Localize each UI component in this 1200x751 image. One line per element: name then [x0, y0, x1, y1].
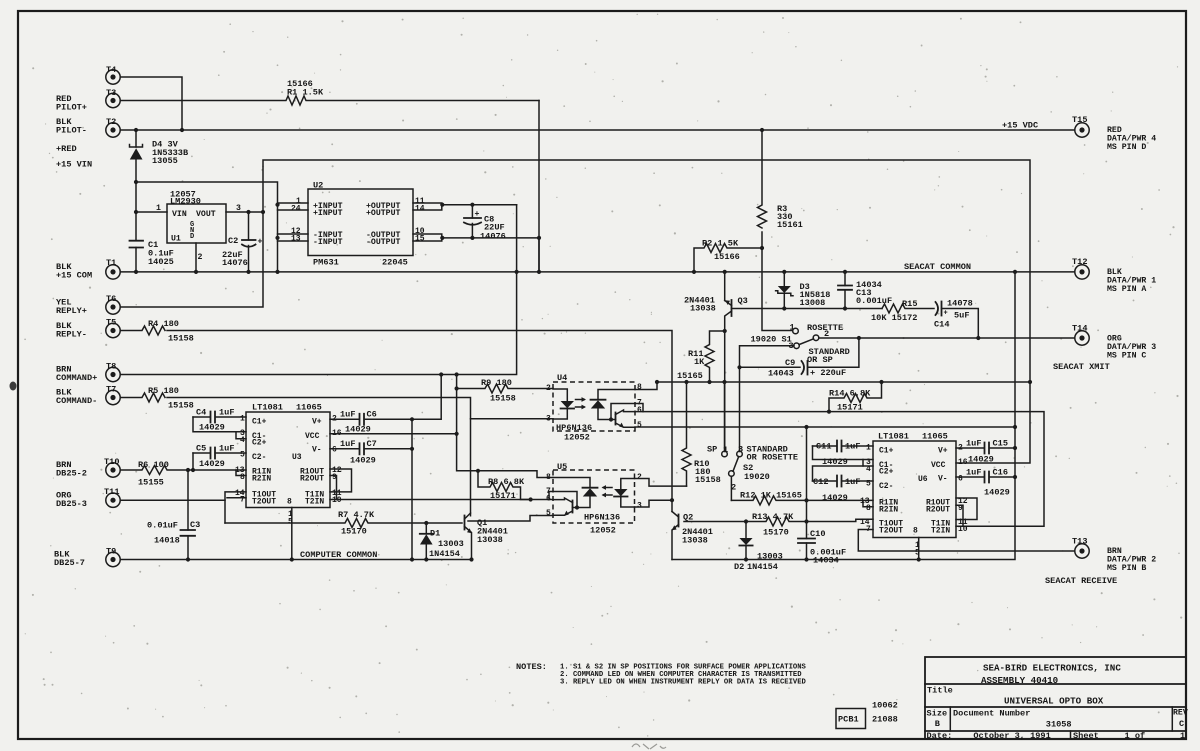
- wire U3 pin4 bracket: [236, 432, 246, 439]
- svg-text:1uF: 1uF: [219, 444, 234, 454]
- node label BRN DB25-2: [56, 460, 87, 479]
- wire U1 pin2 gnd: [195, 243, 197, 272]
- switch S2 19020: [707, 445, 798, 501]
- svg-text:5: 5: [288, 518, 293, 527]
- svg-text:PM631: PM631: [313, 258, 339, 268]
- svg-text:C10: C10: [810, 529, 825, 539]
- svg-text:3: 3: [546, 415, 551, 424]
- svg-text:R6 100: R6 100: [138, 460, 169, 470]
- wire T11 DB25-3: [121, 499, 226, 501]
- svg-text:D: D: [190, 233, 194, 241]
- svg-text:D1: D1: [430, 529, 440, 539]
- svg-text:T14: T14: [1072, 324, 1087, 334]
- svg-text:DATA/PWR 2: DATA/PWR 2: [1107, 555, 1156, 565]
- terminal T8: [106, 362, 120, 382]
- svg-text:C5: C5: [196, 444, 206, 454]
- node label BRN DATA/PWR 2 MS PIN B: [1107, 547, 1156, 573]
- wire U4 pin3 feed: [471, 418, 554, 420]
- wire T4 to T2 net: [121, 77, 183, 130]
- svg-text:8: 8: [637, 383, 642, 392]
- svg-text:13038: 13038: [477, 535, 503, 545]
- terminal T14: [1072, 324, 1089, 346]
- svg-text:D2: D2: [734, 562, 744, 572]
- svg-text:U1: U1: [171, 235, 181, 244]
- notes text: [516, 662, 807, 687]
- wire U4 emitter line to seacat common: [635, 426, 1015, 428]
- wire U1 pin1: [136, 211, 167, 213]
- wire +15 COM / SEACAT COMMON line T1 to T12: [121, 271, 1075, 273]
- svg-text:19020 S1: 19020 S1: [751, 335, 792, 345]
- wire COMPUTER COMMON: [121, 559, 472, 561]
- svg-text:8: 8: [240, 473, 245, 482]
- svg-text:14029: 14029: [199, 423, 225, 433]
- svg-text:+: +: [944, 310, 948, 318]
- svg-text:T2IN: T2IN: [305, 498, 324, 507]
- wire U4 pin8 to reply rail: [635, 382, 657, 390]
- terminal T5: [106, 318, 120, 338]
- svg-text:ASSEMBLY 40410: ASSEMBLY 40410: [981, 675, 1058, 686]
- svg-text:C6: C6: [367, 410, 377, 420]
- svg-text:C4: C4: [196, 408, 206, 418]
- terminal T15: [1072, 115, 1089, 137]
- wire U3 gnd pins 1 5: [288, 508, 293, 560]
- wire S1 contact 2 to T14 xmit line: [819, 337, 1075, 339]
- svg-text:R2IN: R2IN: [879, 506, 898, 515]
- svg-text:22045: 22045: [382, 258, 408, 268]
- U6 pin number labels: [860, 444, 968, 535]
- wire R1 right leg down to +15 COM: [538, 101, 540, 272]
- svg-text:+INPUT: +INPUT: [313, 209, 343, 218]
- svg-text:V-: V-: [938, 475, 948, 484]
- svg-text:24: 24: [291, 205, 301, 214]
- terminal T7: [106, 385, 120, 405]
- wire U2 +output to common: [413, 203, 517, 210]
- svg-text:HP6N136: HP6N136: [584, 513, 620, 523]
- svg-text:5: 5: [546, 509, 551, 518]
- svg-text:8: 8: [866, 504, 871, 513]
- wire U1 pin3 VOUT: [226, 211, 263, 213]
- svg-text:R2OUT: R2OUT: [300, 475, 324, 484]
- svg-text:1K: 1K: [694, 357, 705, 367]
- svg-text:T11: T11: [104, 487, 119, 497]
- resistor R2 1.5K: [694, 239, 762, 272]
- svg-text:15: 15: [415, 235, 425, 244]
- svg-text:8: 8: [287, 498, 292, 507]
- svg-text:REPLY-: REPLY-: [56, 330, 87, 340]
- U4 coupling arrows: [576, 397, 587, 409]
- stray mark left border: [10, 382, 17, 391]
- wire reply rail (U4 pin8 / R10 / R11 / Q3 / T6): [657, 381, 1030, 383]
- svg-text:V-: V-: [312, 446, 322, 455]
- title block text: [927, 663, 1188, 742]
- svg-text:C2+: C2+: [879, 468, 894, 477]
- svg-text:1uF: 1uF: [966, 439, 981, 449]
- capacitor C14 5uF: [934, 299, 978, 339]
- capacitor C5 1uF: [193, 444, 246, 471]
- svg-text:13038: 13038: [690, 304, 716, 314]
- svg-text:14078: 14078: [947, 299, 973, 309]
- wire U6 VCC line label: [968, 455, 994, 465]
- svg-text:Sheet: Sheet: [1073, 731, 1099, 741]
- transistor Q1 2N4401: [465, 513, 508, 560]
- svg-text:R8 6.8K: R8 6.8K: [488, 477, 525, 487]
- wire U6 pin8 bracket: [863, 500, 873, 506]
- svg-text:14029: 14029: [199, 459, 225, 469]
- svg-text:R14 6.8K: R14 6.8K: [829, 389, 871, 399]
- svg-text:11065: 11065: [922, 432, 948, 442]
- U4 pin number labels: [546, 383, 642, 430]
- capacitor C9 220uF: [740, 338, 859, 379]
- svg-text:13055: 13055: [152, 156, 178, 166]
- svg-text:R12 1K 15165: R12 1K 15165: [740, 491, 802, 501]
- svg-text:C2+: C2+: [252, 439, 267, 448]
- svg-text:14029: 14029: [345, 425, 371, 435]
- svg-text:1 of: 1 of: [1125, 731, 1146, 741]
- svg-text:1N4154: 1N4154: [429, 549, 460, 559]
- terminal T13: [1072, 537, 1089, 559]
- svg-text:C16: C16: [993, 468, 1008, 478]
- svg-text:OR ROSETTE: OR ROSETTE: [747, 453, 799, 463]
- svg-text:LT1081: LT1081: [878, 432, 909, 442]
- svg-text:+: +: [258, 238, 263, 247]
- svg-text:14034: 14034: [813, 556, 839, 566]
- wire U5 pin5 stub: [468, 516, 553, 522]
- node label SEACAT XMIT: [1053, 362, 1110, 372]
- svg-text:14043: 14043: [768, 369, 794, 379]
- U5 LED: [614, 479, 634, 508]
- capacitor C8 22UF: [464, 205, 506, 242]
- wire U3 R1OUT to T1IN loop: [330, 469, 352, 492]
- svg-text:T7: T7: [106, 385, 116, 395]
- wire T5 REPLY- line to Q2 collector: [167, 331, 672, 512]
- svg-text:UNIVERSAL OPTO BOX: UNIVERSAL OPTO BOX: [1004, 696, 1104, 707]
- svg-text:2: 2: [198, 253, 203, 262]
- svg-text:U3: U3: [292, 453, 302, 462]
- terminal T2: [106, 117, 120, 137]
- node label RED PILOT+: [56, 94, 87, 113]
- node label BLK REPLY-: [56, 321, 87, 340]
- svg-text:COMMAND-: COMMAND-: [56, 396, 97, 406]
- resistor R5 180: [121, 386, 194, 411]
- wire instrument ground line: [672, 272, 1015, 560]
- svg-text:C2-: C2-: [252, 453, 266, 462]
- wire R12 C10 node riser to seacat common: [806, 427, 808, 500]
- resistor R1 1.5K: [121, 79, 540, 105]
- svg-text:T2OUT: T2OUT: [252, 498, 276, 507]
- svg-text:8: 8: [546, 473, 551, 482]
- svg-text:PCB1: PCB1: [838, 715, 859, 725]
- svg-text:COMPUTER COMMON: COMPUTER COMMON: [300, 550, 377, 560]
- svg-text:T5: T5: [106, 318, 116, 328]
- wire T8 branch vertical to U5 pin8: [457, 375, 553, 478]
- svg-text:0.01uF: 0.01uF: [147, 521, 178, 531]
- svg-text:REPLY+: REPLY+: [56, 306, 87, 316]
- svg-text:1: 1: [1180, 731, 1185, 741]
- svg-text:R1 1.5K: R1 1.5K: [287, 88, 324, 98]
- node label SEACAT RECEIVE: [1045, 576, 1117, 586]
- svg-text:LM2930: LM2930: [170, 197, 201, 207]
- svg-text:C: C: [1179, 719, 1184, 729]
- node label COMPUTER COMMON: [300, 550, 377, 560]
- svg-text:14029: 14029: [968, 455, 994, 465]
- svg-text:T9: T9: [106, 547, 116, 557]
- diode D3 1N5818 schottky: [776, 272, 831, 309]
- wire U6 R2OUT bracket: [956, 505, 963, 526]
- svg-text:6: 6: [637, 406, 642, 415]
- svg-text:C9: C9: [785, 358, 795, 368]
- svg-text:C2: C2: [228, 236, 238, 246]
- svg-text:13003: 13003: [438, 539, 464, 549]
- node label BRN COMMAND+: [56, 365, 97, 384]
- wire U5 pin3 to Q2 collector: [635, 500, 673, 507]
- svg-text:6: 6: [958, 475, 963, 484]
- svg-text:DATA/PWR 1: DATA/PWR 1: [1107, 276, 1156, 286]
- svg-text:DATA/PWR 4: DATA/PWR 4: [1107, 134, 1156, 144]
- svg-text:R15: R15: [902, 299, 917, 309]
- svg-text:2: 2: [731, 483, 736, 493]
- svg-text:15158: 15158: [490, 394, 516, 404]
- opto U5 HP6N136 dashed box: [553, 462, 635, 536]
- svg-text:U5: U5: [557, 462, 567, 472]
- wire U3 T2IN line from U5: [330, 499, 553, 501]
- svg-text:R9 180: R9 180: [481, 378, 512, 388]
- svg-text:SP: SP: [707, 445, 717, 455]
- svg-text:T12: T12: [1072, 257, 1087, 267]
- svg-text:13008: 13008: [800, 298, 826, 308]
- wire S1 contact 3 leg to S2 contact 3: [740, 346, 795, 452]
- svg-text:15165: 15165: [677, 371, 703, 381]
- resistor R11 1K: [677, 331, 725, 382]
- svg-text:C14: C14: [934, 320, 949, 330]
- svg-text:5: 5: [637, 421, 642, 430]
- svg-text:C7: C7: [367, 439, 377, 449]
- svg-text:0.001uF: 0.001uF: [856, 296, 892, 306]
- node label BLK COMMAND-: [56, 388, 97, 407]
- svg-text:R13 4.7K: R13 4.7K: [752, 512, 794, 522]
- svg-text:October 3, 1991: October 3, 1991: [973, 731, 1050, 741]
- svg-text:15171: 15171: [837, 403, 863, 413]
- svg-text:T8: T8: [106, 362, 116, 372]
- svg-text:4: 4: [240, 436, 245, 445]
- node label YEL REPLY+: [56, 298, 87, 317]
- svg-text:T13: T13: [1072, 537, 1087, 547]
- svg-text:VCC: VCC: [305, 432, 320, 441]
- wire U5 pin7 hook: [549, 492, 553, 500]
- svg-text:T2IN: T2IN: [931, 527, 950, 536]
- svg-text:SEACAT RECEIVE: SEACAT RECEIVE: [1045, 576, 1117, 586]
- svg-text:15158: 15158: [168, 334, 194, 344]
- node label ORG DATA/PWR 3 MS PIN C: [1107, 335, 1156, 361]
- svg-text:3. REPLY LED ON WHEN INSTRUMEN: 3. REPLY LED ON WHEN INSTRUMENT REPLY OR…: [560, 679, 807, 687]
- svg-text:1uF: 1uF: [845, 477, 860, 487]
- wire computer ground spine: [411, 419, 413, 559]
- terminal T4: [106, 65, 120, 84]
- svg-text:R4 180: R4 180: [148, 319, 179, 329]
- wire Q3 base line / xmit filter line: [732, 308, 883, 310]
- svg-text:13038: 13038: [682, 536, 708, 546]
- svg-text:3: 3: [637, 502, 642, 511]
- svg-text:10K 15172: 10K 15172: [871, 313, 917, 323]
- node label BLK DATA/PWR 1 MS PIN A: [1107, 268, 1156, 294]
- svg-text:SEA-BIRD ELECTRONICS, INC: SEA-BIRD ELECTRONICS, INC: [983, 663, 1121, 674]
- svg-text:15161: 15161: [777, 220, 803, 230]
- svg-text:R7 4.7K: R7 4.7K: [338, 510, 375, 520]
- svg-text:DATA/PWR 3: DATA/PWR 3: [1107, 342, 1156, 352]
- svg-text:T1: T1: [106, 258, 116, 268]
- svg-text:Document Number: Document Number: [953, 709, 1030, 719]
- stray pencil scribble bottom: [632, 744, 666, 749]
- svg-text:11065: 11065: [296, 403, 322, 413]
- svg-text:U6: U6: [918, 475, 928, 484]
- svg-text:5: 5: [240, 451, 245, 460]
- svg-text:T15: T15: [1072, 115, 1087, 125]
- svg-text:T2OUT: T2OUT: [879, 527, 903, 536]
- resistor R10 180: [682, 382, 721, 486]
- svg-text:SEACAT COMMON: SEACAT COMMON: [904, 262, 971, 272]
- svg-text:Date:: Date:: [927, 731, 953, 741]
- svg-text:C15: C15: [993, 439, 1008, 449]
- terminal T11: [104, 487, 120, 507]
- wire T7 COMMAND- to U4 pin3: [167, 398, 471, 516]
- svg-text:T6: T6: [106, 294, 116, 304]
- node label +RED: [56, 144, 77, 154]
- U4 photodiode: [591, 390, 636, 420]
- svg-text:-INPUT: -INPUT: [313, 238, 343, 247]
- transistor Q2 2N4401: [672, 512, 713, 560]
- svg-text:HP6N136: HP6N136: [556, 423, 592, 433]
- svg-text:ROSETTE: ROSETTE: [807, 323, 843, 333]
- svg-text:15170: 15170: [763, 528, 789, 538]
- svg-text:5: 5: [915, 549, 920, 558]
- regulator U1 LM2930: [156, 190, 241, 263]
- svg-text:+RED: +RED: [56, 144, 77, 154]
- svg-text:Q2: Q2: [683, 513, 693, 523]
- svg-text:DB25-3: DB25-3: [56, 499, 87, 509]
- svg-text:5uF: 5uF: [954, 311, 969, 321]
- svg-text:VIN: VIN: [172, 210, 187, 219]
- svg-text:U4: U4: [557, 373, 567, 383]
- capacitor C11 1uF: [813, 441, 874, 468]
- capacitor C13 0.001uF: [838, 272, 892, 309]
- capacitor C15 1uF: [956, 439, 1015, 454]
- svg-text:1uF: 1uF: [340, 439, 355, 449]
- svg-text:14029: 14029: [822, 493, 848, 503]
- svg-text:12052: 12052: [564, 433, 590, 443]
- svg-text:VCC: VCC: [931, 461, 946, 470]
- svg-text:T3: T3: [106, 88, 116, 98]
- svg-text:31058: 31058: [1046, 720, 1072, 730]
- capacitor C16 1uF: [956, 468, 1015, 498]
- wire U4 pin7 hook to pin6 line: [635, 404, 643, 412]
- wire U3 R2OUT bracket to T2IN line: [330, 476, 337, 500]
- wire T6 REPLY+ riser to U6 VCC: [121, 160, 1031, 463]
- svg-text:14018: 14018: [154, 536, 180, 546]
- switch S1 19020: [751, 323, 850, 366]
- svg-text:15166: 15166: [714, 252, 740, 262]
- node label +15 VIN: [56, 160, 92, 170]
- wire +15 VDC line T2 to T15: [121, 129, 1075, 131]
- U5 coupling arrows: [602, 485, 613, 497]
- svg-text:R5 180: R5 180: [148, 386, 179, 396]
- wire T8 COMMAND+ line: [121, 205, 517, 375]
- svg-text:15170: 15170: [341, 527, 367, 537]
- capacitor C7 1uF: [330, 439, 412, 466]
- svg-text:Title: Title: [927, 686, 953, 696]
- svg-text:C12: C12: [813, 477, 828, 487]
- svg-text:MS PIN C: MS PIN C: [1107, 352, 1146, 361]
- svg-text:3: 3: [738, 445, 743, 455]
- svg-text:R2IN: R2IN: [252, 475, 271, 484]
- resistor R8 6.8K: [478, 471, 531, 501]
- svg-text:16: 16: [958, 458, 968, 467]
- svg-text:DB25-7: DB25-7: [54, 558, 85, 568]
- resistor R7 4.7K: [225, 510, 462, 537]
- svg-text:T10: T10: [104, 457, 119, 467]
- node label RED DATA/PWR 4 MS PIN D: [1107, 126, 1156, 152]
- svg-text:DB25-2: DB25-2: [56, 469, 87, 479]
- U5 pin number labels: [546, 473, 642, 518]
- svg-text:1uF: 1uF: [966, 468, 981, 478]
- diode D1 1N4154: [420, 523, 464, 560]
- wire U3 VCC line: [330, 425, 457, 435]
- svg-text:V+: V+: [938, 447, 948, 456]
- svg-text:8: 8: [913, 527, 918, 536]
- svg-text:14076: 14076: [480, 232, 506, 242]
- op-amp U6 LT1081 box: [873, 432, 956, 538]
- svg-text:MS PIN A: MS PIN A: [1107, 285, 1146, 294]
- resistor R15 10K: [871, 299, 934, 323]
- svg-text:1: 1: [866, 444, 871, 453]
- svg-text:MS PIN B: MS PIN B: [1107, 564, 1146, 573]
- svg-text:7: 7: [240, 496, 245, 505]
- capacitor C2 22uF: [222, 212, 263, 272]
- resistor R13 4.7K: [684, 512, 873, 538]
- svg-text:14025: 14025: [148, 257, 174, 267]
- svg-text:13: 13: [291, 235, 301, 244]
- svg-text:1uF: 1uF: [219, 408, 234, 418]
- svg-text:6: 6: [332, 446, 337, 455]
- capacitor C12 1uF: [813, 466, 874, 503]
- svg-text:Size: Size: [927, 709, 948, 719]
- capacitor C1 0.1uF: [130, 240, 174, 272]
- capacitor C10 0.001uF: [798, 500, 846, 565]
- svg-text:10062: 10062: [872, 701, 898, 711]
- wire R3 leg to S1 contact 1: [762, 232, 793, 331]
- U4 LED: [553, 389, 574, 419]
- svg-text:+ 220uF: + 220uF: [810, 368, 846, 378]
- svg-text:+15 COM: +15 COM: [56, 271, 92, 281]
- svg-text:14029: 14029: [984, 488, 1010, 498]
- svg-text:LT1081: LT1081: [252, 403, 283, 413]
- svg-text:+15 VIN: +15 VIN: [56, 160, 92, 170]
- svg-text:PILOT+: PILOT+: [56, 103, 87, 113]
- svg-text:2: 2: [637, 473, 642, 482]
- svg-text:MS PIN D: MS PIN D: [1107, 143, 1146, 152]
- svg-text:21088: 21088: [872, 715, 898, 725]
- title block frame: [925, 657, 1186, 739]
- diode D4 zener 1N5333B: [130, 130, 189, 241]
- svg-text:NOTES:: NOTES:: [516, 662, 547, 672]
- svg-text:15171: 15171: [490, 491, 516, 501]
- svg-text:15158: 15158: [168, 401, 194, 411]
- terminal T6: [106, 294, 120, 314]
- wire U2 -output line: [413, 234, 539, 272]
- svg-text:C3: C3: [190, 520, 200, 530]
- svg-text:PILOT-: PILOT-: [56, 126, 87, 136]
- svg-text:T2: T2: [106, 117, 116, 127]
- terminal T9: [106, 547, 120, 567]
- svg-text:COMMAND+: COMMAND+: [56, 373, 97, 383]
